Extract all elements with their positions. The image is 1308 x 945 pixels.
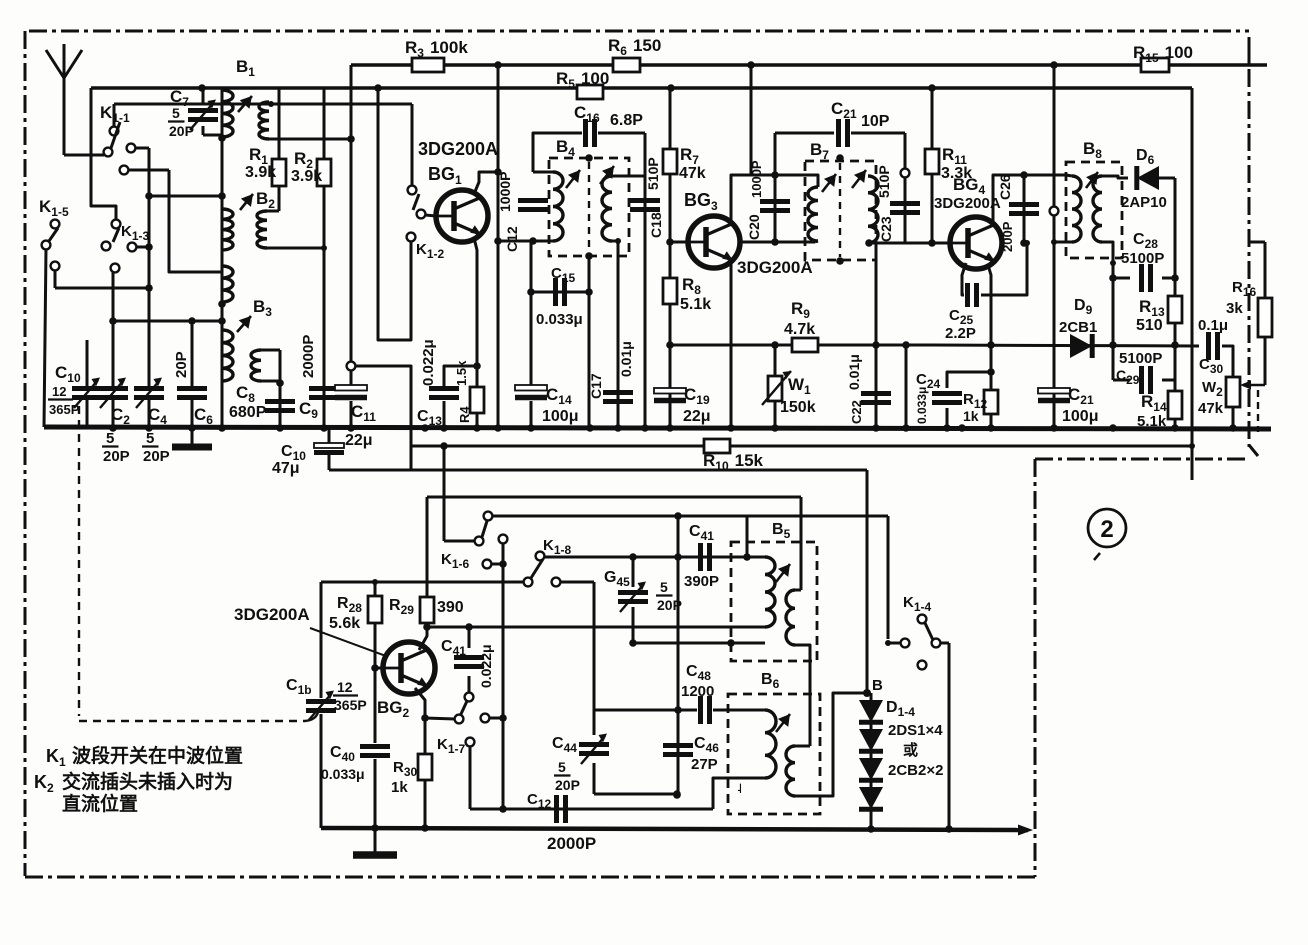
svg-text:20P: 20P: [169, 123, 194, 139]
svg-text:0.01μ: 0.01μ: [846, 354, 862, 390]
svg-text:2: 2: [1100, 516, 1113, 543]
svg-text:20P: 20P: [657, 597, 682, 613]
svg-text:20P: 20P: [173, 351, 190, 378]
svg-text:22μ: 22μ: [345, 432, 373, 449]
svg-text:5.6k: 5.6k: [329, 615, 360, 632]
svg-text:12: 12: [52, 384, 66, 399]
svg-text:4.7k: 4.7k: [784, 321, 815, 338]
svg-text:直流位置: 直流位置: [62, 792, 138, 815]
svg-text:22μ: 22μ: [683, 408, 711, 425]
svg-text:波段开关在中波位置: 波段开关在中波位置: [72, 744, 243, 767]
svg-text:510P: 510P: [645, 157, 661, 190]
svg-text:5: 5: [146, 430, 154, 447]
svg-text:47k: 47k: [679, 165, 706, 182]
svg-text:3.9k: 3.9k: [291, 168, 322, 185]
svg-text:1: 1: [59, 755, 66, 769]
svg-text:47k: 47k: [1198, 400, 1224, 417]
svg-text:R3100k: R3100k: [405, 38, 468, 60]
svg-text:2.2P: 2.2P: [945, 325, 976, 342]
svg-text:6.8P: 6.8P: [610, 112, 643, 129]
svg-text:C20: C20: [746, 214, 762, 240]
svg-text:或: 或: [903, 741, 918, 759]
svg-text:100μ: 100μ: [1062, 408, 1098, 425]
svg-text:5.1k: 5.1k: [1137, 413, 1167, 430]
svg-text:150k: 150k: [780, 399, 816, 416]
svg-text:R5100: R5100: [556, 69, 609, 91]
svg-text:C23: C23: [878, 216, 894, 242]
svg-text:2: 2: [47, 781, 54, 795]
svg-text:510P: 510P: [876, 165, 892, 198]
svg-text:20P: 20P: [555, 777, 580, 793]
svg-text:5: 5: [558, 759, 566, 775]
svg-text:390: 390: [437, 599, 464, 616]
svg-text:1.5k: 1.5k: [454, 360, 469, 386]
svg-text:3.9k: 3.9k: [245, 164, 276, 181]
svg-text:1000P: 1000P: [497, 172, 513, 212]
svg-text:0.1μ: 0.1μ: [1198, 317, 1228, 334]
svg-text:B: B: [872, 677, 883, 694]
svg-text:20P: 20P: [103, 448, 130, 465]
svg-text:1k: 1k: [963, 408, 979, 424]
svg-text:5.1k: 5.1k: [680, 296, 711, 313]
svg-text:365P: 365P: [49, 402, 80, 417]
svg-text:1k: 1k: [391, 779, 408, 796]
svg-text:C18: C18: [648, 212, 664, 238]
svg-text:390P: 390P: [684, 573, 719, 590]
svg-text:2000P: 2000P: [300, 335, 317, 378]
svg-text:27P: 27P: [691, 756, 718, 773]
svg-text:3DG200A: 3DG200A: [234, 605, 310, 624]
svg-text:3DG200A: 3DG200A: [934, 195, 1001, 212]
svg-text:C17: C17: [588, 373, 604, 399]
svg-text:100μ: 100μ: [542, 408, 578, 425]
svg-text:365P: 365P: [334, 697, 367, 713]
svg-text:2CB1: 2CB1: [1059, 319, 1097, 336]
svg-text:0.033μ: 0.033μ: [536, 311, 583, 328]
svg-text:2000P: 2000P: [547, 834, 596, 853]
svg-text:0.01μ: 0.01μ: [618, 341, 634, 377]
svg-text:0.033μ: 0.033μ: [321, 766, 365, 782]
svg-text:20P: 20P: [143, 448, 170, 465]
svg-text:C12: C12: [504, 226, 520, 252]
svg-text:680P: 680P: [229, 404, 267, 421]
svg-text:R4: R4: [457, 406, 472, 423]
svg-text:3k: 3k: [1226, 300, 1243, 317]
svg-text:C22: C22: [849, 400, 864, 424]
svg-text:K: K: [46, 746, 59, 766]
svg-text:5100P: 5100P: [1121, 250, 1164, 267]
svg-text:0.033μ: 0.033μ: [915, 387, 929, 424]
svg-text:5: 5: [172, 105, 180, 121]
svg-text:0.022μ: 0.022μ: [420, 339, 437, 386]
svg-text:3DG200A: 3DG200A: [418, 139, 498, 159]
svg-text:5: 5: [106, 430, 114, 447]
svg-text:K: K: [34, 772, 47, 792]
svg-text:5100P: 5100P: [1119, 350, 1162, 367]
svg-text:R6150: R6150: [608, 36, 661, 58]
svg-text:200P: 200P: [1000, 221, 1015, 252]
svg-text:2DS1×4: 2DS1×4: [888, 722, 943, 739]
svg-text:10P: 10P: [861, 113, 890, 130]
svg-text:5: 5: [660, 579, 668, 595]
svg-text:510: 510: [1136, 317, 1163, 334]
svg-text:12: 12: [337, 679, 353, 695]
svg-text:1200: 1200: [681, 683, 714, 700]
svg-text:交流插头未插入时为: 交流插头未插入时为: [62, 770, 233, 793]
svg-text:3DG200A: 3DG200A: [737, 258, 813, 277]
svg-text:2CB2×2: 2CB2×2: [888, 762, 943, 779]
svg-text:2AP10: 2AP10: [1121, 194, 1167, 211]
svg-text:47μ: 47μ: [272, 460, 300, 477]
svg-text:C26: C26: [997, 174, 1013, 200]
svg-text:˨: ˨: [737, 781, 742, 796]
svg-text:0.022μ: 0.022μ: [478, 644, 494, 688]
